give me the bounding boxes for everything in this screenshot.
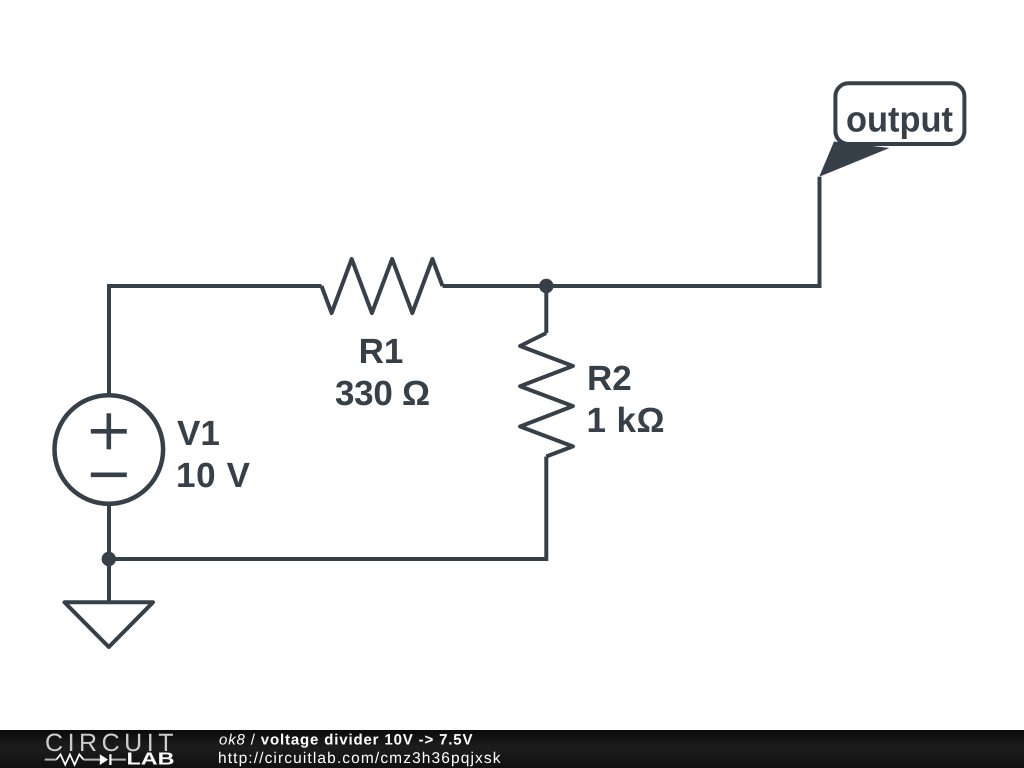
flag tail for output <box>819 142 889 177</box>
svg-text:R2: R2 <box>587 359 632 398</box>
svg-text:output: output <box>846 99 953 140</box>
svg-text:LAB: LAB <box>127 749 175 768</box>
svg-text:R1: R1 <box>359 332 404 371</box>
wire: R1 to output corner <box>443 177 820 286</box>
V1 minus sign <box>91 472 127 477</box>
wire: R2 bottom to bottom rail <box>109 457 546 560</box>
svg-text:10 V: 10 V <box>176 456 251 495</box>
svg-text:ok8 / voltage divider 10V -> 7: ok8 / voltage divider 10V -> 7.5V <box>219 731 473 748</box>
resistor R2 <box>520 333 573 457</box>
wire top-left: V1 top to R1 <box>109 286 322 395</box>
node B: V1-/R2-/ground junction <box>102 552 116 566</box>
wire: V1 bottom to ground <box>107 504 111 602</box>
V1 plus sign <box>91 413 127 449</box>
node A: R1/R2/output junction <box>539 279 553 293</box>
wire: node to R2 <box>544 286 548 333</box>
CircuitLab logo schematic glyph (resistor + diode) <box>45 754 126 765</box>
voltage source V1 circle <box>55 395 164 504</box>
flag box for output node <box>835 83 964 144</box>
svg-text:1 kΩ: 1 kΩ <box>587 401 665 440</box>
svg-text:V1: V1 <box>177 414 220 453</box>
resistor R1 <box>322 259 443 313</box>
ground symbol <box>65 602 154 647</box>
svg-text:http://circuitlab.com/cmz3h36p: http://circuitlab.com/cmz3h36pqjxsk <box>218 750 501 767</box>
svg-text:330 Ω: 330 Ω <box>335 374 430 413</box>
